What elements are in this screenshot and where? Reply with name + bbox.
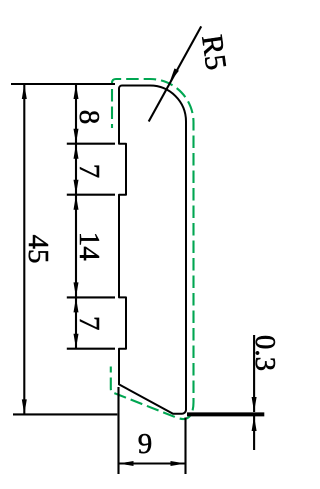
svg-text:7: 7 <box>73 316 105 331</box>
arrows at y297 <box>74 282 79 297</box>
dimension 0.3 line upper <box>253 335 255 412</box>
dimension 9 extension left <box>117 387 119 474</box>
dimension 45 arrow down <box>22 399 27 414</box>
svg-text:0.3: 0.3 <box>249 335 281 371</box>
dimension 0.3 arrow up <box>252 416 257 431</box>
svg-text:9: 9 <box>138 428 153 460</box>
dimension 9 arrow left <box>119 461 134 466</box>
dimension 0.3 arrow down <box>252 397 257 412</box>
svg-text:45: 45 <box>22 235 54 264</box>
green dashed offset contour <box>111 79 194 419</box>
extension line y195 <box>67 194 115 196</box>
svg-text:7: 7 <box>73 164 105 179</box>
dimension 45 line <box>23 84 25 414</box>
dimension 45 arrow up <box>22 84 27 99</box>
leader R5 arrowhead <box>169 68 179 83</box>
extension line y297 <box>67 296 115 298</box>
svg-text:14: 14 <box>73 232 105 262</box>
extension line y348 <box>67 348 115 350</box>
dimension chain line 8/7/14/7 <box>75 84 77 349</box>
arrow up at y84 <box>74 84 79 99</box>
arrows at y143 <box>74 129 79 144</box>
dimension 9 line <box>119 462 186 464</box>
leader line R5 <box>149 26 202 121</box>
dimension 9 extension right <box>184 418 186 475</box>
svg-text:8: 8 <box>73 110 105 125</box>
thick 0.3 flange line <box>187 412 264 416</box>
dimension 9 arrow right <box>171 461 186 466</box>
svg-text:R5: R5 <box>195 33 233 72</box>
extension line bottom <box>13 413 117 415</box>
dimension 0.3 line lower <box>253 416 255 450</box>
extension line y143 <box>67 143 115 145</box>
extension line top <box>11 83 115 85</box>
profile outline <box>119 86 186 414</box>
arrows at y195 <box>74 180 79 195</box>
arrow down at y348 <box>74 334 79 349</box>
